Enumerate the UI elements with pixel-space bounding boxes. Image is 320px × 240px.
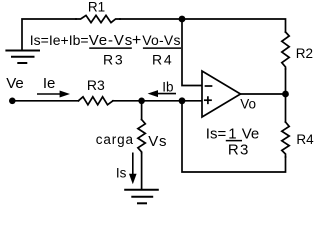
wire carga to ground [141, 153, 143, 190]
resistor R2 [282, 32, 289, 69]
node Ve terminal [9, 98, 16, 105]
wire inverting feedback [182, 19, 202, 86]
wire top from R1 to right corner [120, 19, 286, 32]
svg-text:R3: R3 [87, 77, 105, 93]
svg-text:Is=Ie+Ib=: Is=Ie+Ib= [30, 32, 89, 48]
svg-text:R3: R3 [228, 141, 250, 158]
svg-text:1: 1 [228, 125, 236, 142]
svg-text:Vs: Vs [148, 133, 167, 150]
wire Ve to R3 [12, 100, 78, 102]
arrow Is [129, 153, 137, 185]
resistor carga [138, 120, 145, 153]
ground left [6, 51, 39, 64]
node carga junction [138, 98, 145, 105]
fraction bar 2 [143, 47, 181, 49]
resistor R4 [282, 122, 289, 157]
svg-text:Ve-Vs: Ve-Vs [89, 32, 134, 49]
node top junction [179, 16, 186, 23]
op-amp minus pin mark [206, 85, 212, 87]
fraction bar 3 [226, 140, 242, 142]
wire carga branch down [141, 101, 143, 120]
svg-text:Ib: Ib [162, 79, 173, 94]
node output junction [282, 91, 289, 98]
svg-text:R1: R1 [88, 0, 105, 14]
node plus-input junction [179, 97, 186, 104]
op-amp U1 [202, 71, 241, 117]
wire feedback bottom [182, 101, 286, 172]
svg-text:Vo: Vo [240, 97, 256, 112]
resistor R1 [76, 15, 120, 22]
wire R3 to op-amp plus input [113, 100, 202, 102]
svg-text:Ve: Ve [6, 75, 24, 92]
wire op-amp output [241, 93, 286, 95]
svg-text:Ie: Ie [43, 75, 56, 92]
svg-text:Is: Is [116, 166, 127, 181]
svg-text:R4: R4 [296, 132, 314, 147]
op-amp plus pin mark [205, 97, 211, 103]
svg-text:carga: carga [96, 132, 134, 147]
svg-text:Vo-Vs: Vo-Vs [142, 32, 180, 48]
svg-text:R4: R4 [152, 51, 174, 67]
arrow Ie [37, 91, 70, 98]
svg-text:+: + [132, 32, 141, 49]
wire top from ground corner to R1 [22, 19, 76, 51]
svg-text:R2: R2 [296, 46, 313, 61]
wire R2 to output node [285, 69, 287, 94]
resistor R3 [78, 97, 113, 105]
ground bottom [125, 190, 158, 204]
svg-text:Is=: Is= [206, 125, 227, 142]
fraction bar 1 [89, 47, 132, 49]
wire output node to R4 [285, 94, 287, 122]
svg-text:Ve: Ve [242, 125, 260, 142]
svg-text:R3: R3 [103, 51, 125, 67]
arrow Ib [148, 90, 176, 97]
